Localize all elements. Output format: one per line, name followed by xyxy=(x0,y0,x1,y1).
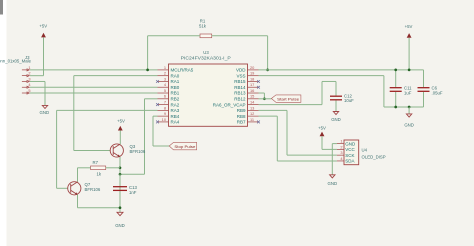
no-connect marks pins 3,7,10 xyxy=(156,80,159,123)
wire U3 RA0 (pin2) to Q3 base xyxy=(74,76,158,151)
pin numbers xyxy=(340,139,343,161)
junction MCLR/R1 xyxy=(146,69,149,72)
junction VDD/+5V xyxy=(408,69,411,72)
capacitor C6 .05uF xyxy=(418,70,443,107)
svg-text:51k: 51k xyxy=(199,23,207,28)
svg-text:GND: GND xyxy=(40,110,50,115)
J3 pin 1 xyxy=(22,69,29,71)
svg-text:GND: GND xyxy=(328,181,338,186)
wire Q3 emitter down xyxy=(119,157,121,208)
svg-text:RB7: RB7 xyxy=(237,120,246,125)
pin names xyxy=(345,141,356,163)
svg-text:RA6_OR_VCAP: RA6_OR_VCAP xyxy=(213,102,246,107)
junction rail/GND right xyxy=(408,106,411,109)
pin stubs xyxy=(337,144,344,161)
power +5V (right) xyxy=(405,24,413,70)
transistor Q3 BFR106 xyxy=(110,144,146,157)
svg-text:GND: GND xyxy=(331,117,341,122)
resistor R7 1k xyxy=(91,160,106,177)
wire RB4 (pin9) to Stop Pulse xyxy=(153,116,169,146)
wire C13 bottom lead xyxy=(119,191,121,212)
junction VDD/C11 xyxy=(394,69,397,72)
svg-text:VSS: VSS xyxy=(236,73,245,78)
wire C13 top lead xyxy=(119,174,121,186)
ground (right caps) xyxy=(404,107,414,127)
svg-text:GND: GND xyxy=(404,122,414,127)
svg-text:9: 9 xyxy=(164,111,166,116)
junction VDD/R1 xyxy=(266,69,269,72)
svg-text:8: 8 xyxy=(164,105,166,110)
svg-text:1uF: 1uF xyxy=(404,91,412,96)
svg-text:3: 3 xyxy=(340,150,342,155)
right pin numbers xyxy=(250,65,255,122)
svg-text:OLED_DISP: OLED_DISP xyxy=(362,155,386,160)
transistor Q7 BFR106 xyxy=(68,182,101,195)
svg-text:RB2: RB2 xyxy=(171,97,180,102)
capacitor C12 10uF xyxy=(330,81,354,111)
svg-text:RA3: RA3 xyxy=(171,108,180,113)
svg-text:19: 19 xyxy=(250,71,254,76)
svg-text:Conn_01x05_Male: Conn_01x05_Male xyxy=(0,58,32,63)
wire RB13 (pin16) down to RB12 row xyxy=(259,93,265,99)
wire RA6_OR_VCAP (pin14) up to RB15 row xyxy=(259,81,323,104)
svg-text:.05uF: .05uF xyxy=(432,91,443,96)
capacitor C13 1nF xyxy=(113,185,137,195)
svg-text:12: 12 xyxy=(250,111,254,116)
wire R1 left to MCLR row xyxy=(148,36,200,70)
svg-text:RB4: RB4 xyxy=(171,114,180,119)
ground (pulse generator) xyxy=(115,212,125,228)
wire J3 pin3 to GND xyxy=(30,81,45,105)
svg-text:17: 17 xyxy=(250,82,254,87)
junction Q3 emitter / RB2 wire xyxy=(119,173,122,176)
left pin numbers xyxy=(162,65,167,122)
left scrollbar strip xyxy=(0,0,7,246)
svg-text:RA1: RA1 xyxy=(171,79,180,84)
wire VSS row (pin19) to cap ground rail xyxy=(259,76,424,107)
svg-text:+5V: +5V xyxy=(39,24,47,29)
svg-text:5: 5 xyxy=(28,88,30,93)
wire R7 left to Q7 collector xyxy=(78,168,91,182)
ground (OLED) xyxy=(328,175,338,186)
wire RB2 (pin6) to pulse generator xyxy=(120,99,158,175)
junction Q3 emitter / R7 xyxy=(119,166,122,169)
wire VCAP jog to C12 xyxy=(322,80,336,82)
no-connect marks pins 18,17,11 xyxy=(257,80,260,123)
svg-text:+5V: +5V xyxy=(405,24,413,29)
svg-text:11: 11 xyxy=(250,117,254,122)
junction rail/C11 xyxy=(394,106,397,109)
svg-text:1: 1 xyxy=(28,65,30,70)
svg-text:1nF: 1nF xyxy=(129,190,137,195)
right pin names xyxy=(213,68,247,125)
svg-text:BFR106: BFR106 xyxy=(130,149,146,154)
svg-text:RB8: RB8 xyxy=(237,114,246,119)
wire RA3 (pin8) to Q7 base xyxy=(57,110,158,188)
svg-text:3: 3 xyxy=(28,76,30,81)
J3 pin 4 xyxy=(22,86,29,88)
svg-text:RB12: RB12 xyxy=(234,97,246,102)
power +5V (OLED) xyxy=(318,125,337,149)
svg-text:RA4: RA4 xyxy=(171,120,180,125)
wire Q7 emitter to ground rail xyxy=(78,195,121,208)
svg-text:RB13: RB13 xyxy=(234,91,246,96)
svg-text:Stop Pulse: Stop Pulse xyxy=(174,144,196,149)
wire RB8 (pin12) to OLED SDA xyxy=(259,116,337,161)
svg-text:5: 5 xyxy=(164,88,166,93)
capacitor C11 1uF xyxy=(390,70,412,107)
svg-text:VDD: VDD xyxy=(236,68,246,73)
svg-text:RA0: RA0 xyxy=(171,73,180,78)
svg-text:7: 7 xyxy=(164,99,166,104)
wire R7 right to Q3 emitter xyxy=(106,167,120,169)
junction RB12/RB13 xyxy=(263,97,266,100)
svg-text:R7: R7 xyxy=(93,160,99,165)
global label Start Pulse xyxy=(271,95,301,102)
J3 pin 2 xyxy=(22,75,29,77)
svg-text:13: 13 xyxy=(250,105,254,110)
svg-text:PIC24FV32KA301-I_P: PIC24FV32KA301-I_P xyxy=(181,55,231,60)
global label Stop Pulse xyxy=(169,142,197,149)
svg-text:VCC: VCC xyxy=(345,147,355,152)
OLED display U4 xyxy=(337,139,386,165)
svg-text:16: 16 xyxy=(250,88,254,93)
wire J3 pin2 to +5V xyxy=(30,75,44,77)
wire VDD row (pin20) to decoupling caps xyxy=(259,69,424,71)
wire R1 right to VDD row xyxy=(212,36,268,70)
svg-text:2: 2 xyxy=(164,71,166,76)
svg-text:2: 2 xyxy=(28,71,30,76)
svg-text:1: 1 xyxy=(340,139,342,144)
svg-text:GND: GND xyxy=(345,141,356,146)
svg-text:RB14: RB14 xyxy=(234,85,246,90)
svg-text:MCLR/RA5: MCLR/RA5 xyxy=(171,68,194,73)
wire RB12 (pin15) to Start Pulse xyxy=(259,98,272,100)
svg-text:+5V: +5V xyxy=(318,125,326,130)
right pin stubs xyxy=(248,70,259,122)
svg-text:18: 18 xyxy=(250,76,254,81)
svg-text:2: 2 xyxy=(340,144,342,149)
svg-text:RB0: RB0 xyxy=(171,85,180,90)
J3 pin 5 xyxy=(22,92,29,94)
svg-text:RB9: RB9 xyxy=(237,108,246,113)
left pin stubs xyxy=(158,70,169,122)
svg-text:10uF: 10uF xyxy=(344,98,354,103)
svg-text:BFR106: BFR106 xyxy=(85,187,101,192)
ground (C12) xyxy=(331,112,341,122)
svg-text:RB1: RB1 xyxy=(171,91,180,96)
J3 pin 3 xyxy=(22,80,29,82)
svg-text:U4: U4 xyxy=(362,148,368,153)
resistor R1 51k xyxy=(199,19,212,38)
wire J3 pin1 to U3 MCLR xyxy=(30,69,158,71)
svg-text:1: 1 xyxy=(164,65,166,70)
svg-text:6: 6 xyxy=(164,94,166,99)
svg-text:+5V: +5V xyxy=(117,119,125,124)
svg-text:RA2: RA2 xyxy=(171,102,180,107)
svg-text:3: 3 xyxy=(164,76,166,81)
svg-text:GND: GND xyxy=(115,223,125,228)
wire OLED GND pin to ground xyxy=(332,144,337,175)
left pin names xyxy=(171,68,194,125)
power +5V (Q3 collector) xyxy=(117,119,125,145)
wire J3 pin5 to U3 RB1 xyxy=(30,92,158,94)
power +5V (J3 pin 2) xyxy=(39,24,47,76)
IC U3 PIC24FV32KA301-I_P xyxy=(156,50,260,126)
svg-text:15: 15 xyxy=(250,94,254,99)
wire RB9 (pin13) to OLED SCK xyxy=(259,110,337,155)
svg-text:Start Pulse: Start Pulse xyxy=(277,96,300,101)
ground (J3 pin 3) xyxy=(40,105,50,115)
junction ground rail / C13 xyxy=(119,206,122,209)
svg-text:SDA: SDA xyxy=(345,159,354,164)
svg-text:SCK: SCK xyxy=(345,153,354,158)
wire J3 pin4 to U3 RB0 xyxy=(30,86,158,88)
connector J3 Conn_01x05_Male xyxy=(0,55,32,94)
svg-text:RB15: RB15 xyxy=(234,79,246,84)
svg-text:U3: U3 xyxy=(203,50,209,55)
